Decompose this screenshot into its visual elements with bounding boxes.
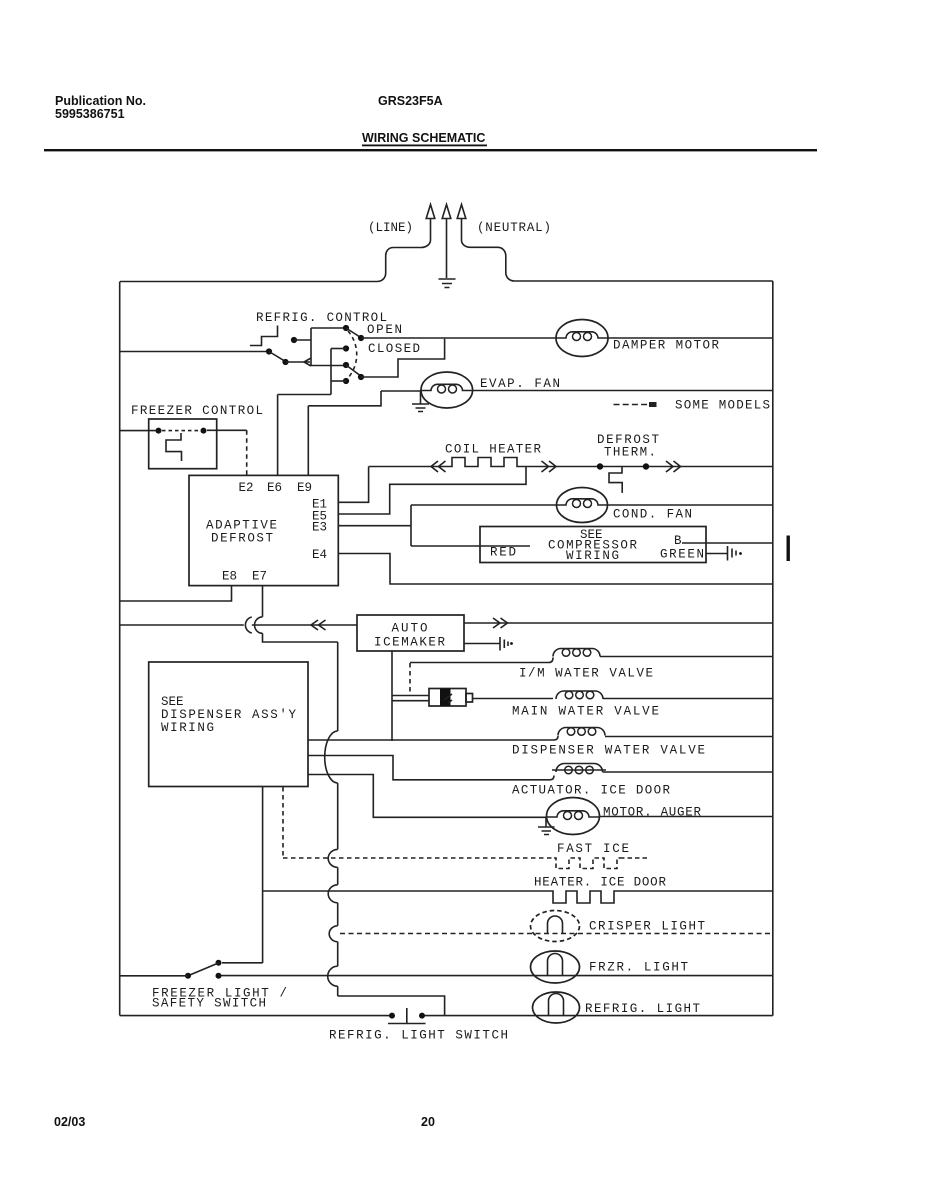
wire auger motor to right edge	[600, 816, 773, 818]
heater fast ice (dashed square wave)	[554, 858, 620, 869]
svg-text:AUTO: AUTO	[392, 622, 428, 636]
wire evap fan row	[381, 390, 773, 393]
svg-text:REFRIG. LIGHT SWITCH: REFRIG. LIGHT SWITCH	[329, 1029, 508, 1043]
svg-text:20: 20	[421, 1115, 435, 1129]
connector chevrons >> (heater row)	[542, 461, 557, 472]
wire actuator ice door feed	[308, 756, 554, 780]
wire icemaker output row	[464, 622, 773, 624]
auger motor M4	[547, 798, 600, 835]
node contact (feed)	[266, 348, 272, 354]
svg-text:5995386751: 5995386751	[55, 107, 125, 121]
wire safety switch / freezer light row	[219, 975, 773, 977]
svg-text:(NEUTRAL): (NEUTRAL)	[477, 221, 551, 235]
node contact mid-lower	[343, 362, 349, 368]
node contact (safety top)	[216, 960, 222, 966]
refrig light switch plunger	[388, 1008, 426, 1024]
svg-text:GRS23F5A: GRS23F5A	[378, 94, 443, 108]
compressor box	[480, 527, 706, 563]
svg-text:DISPENSER ASS'Y: DISPENSER ASS'Y	[161, 708, 296, 722]
wire wiper with connector arrow	[286, 361, 311, 363]
node junction dot	[643, 463, 649, 469]
wire riser x311	[310, 328, 312, 366]
solenoid coil main water valve	[556, 691, 603, 699]
ground symbol (top center)	[439, 279, 456, 288]
node contact (safety left)	[185, 973, 191, 979]
freezer control thermostat stair	[166, 433, 182, 461]
wire E3 to cond fan / compressor	[338, 505, 411, 546]
wire contact to riser	[294, 339, 311, 341]
svg-text:FREEZER CONTROL: FREEZER CONTROL	[131, 404, 263, 418]
svg-text:GREEN: GREEN	[660, 548, 704, 562]
node contact	[201, 428, 207, 434]
connector chevrons >> (icemaker out)	[493, 618, 508, 628]
freezer control dashed contact link	[162, 430, 200, 432]
node contact mid-upper	[343, 345, 349, 351]
switch blade 1	[269, 352, 286, 362]
main enclosure box: left edge	[119, 282, 121, 1016]
refrig control mechanical bracket	[250, 326, 278, 346]
defrost thermostat stair	[609, 467, 622, 493]
svg-text:FRZR. LIGHT: FRZR. LIGHT	[589, 961, 688, 975]
node contact OPEN left	[343, 325, 349, 331]
svg-text:E4: E4	[312, 548, 327, 562]
svg-text:CLOSED: CLOSED	[368, 342, 420, 356]
wire bottom contact to riser	[331, 380, 346, 382]
wire actuator to right edge	[603, 771, 773, 773]
chassis ground (icemaker)	[500, 637, 508, 651]
main enclosure box: top edge	[120, 280, 773, 283]
wire wall to safety switch	[120, 975, 188, 977]
wire I/M valve dashed riser (some models)	[409, 663, 411, 694]
auto icemaker box	[357, 615, 464, 651]
crisper light (dashed lamp)	[531, 911, 580, 942]
wire fast ice dashed row	[283, 857, 554, 859]
svg-text:REFRIG. LIGHT: REFRIG. LIGHT	[585, 1002, 700, 1016]
wire E5 bypass riser	[338, 467, 526, 515]
svg-text:DEFROST: DEFROST	[211, 532, 273, 546]
connector chevrons >> (after therm)	[666, 461, 681, 472]
svg-text:THERM.: THERM.	[604, 446, 656, 460]
wire crisper light dashed row	[340, 933, 773, 935]
node contact OPEN right	[358, 335, 364, 341]
wire dispenser water valve row	[308, 736, 558, 740]
wire CLOSED path jog	[361, 339, 445, 377]
svg-text:ACTUATOR. ICE DOOR: ACTUATOR. ICE DOOR	[512, 784, 670, 798]
wire LINE lead-in curve	[377, 219, 431, 282]
evap fan motor M2	[421, 372, 473, 408]
wire freezer control output	[207, 429, 247, 431]
svg-text:02/03: 02/03	[54, 1115, 85, 1129]
svg-text:MOTOR. AUGER: MOTOR. AUGER	[603, 806, 701, 820]
dispenser assembly box	[149, 662, 308, 787]
svg-text:E3: E3	[312, 521, 327, 535]
switch blade CLOSED	[346, 365, 362, 377]
ground symbol (evap fan)	[412, 391, 429, 412]
wire icemaker ground lead	[464, 643, 500, 645]
wire to OPEN contact	[311, 327, 346, 329]
svg-text:WIRING SCHEMATIC: WIRING SCHEMATIC	[362, 131, 485, 145]
svg-text:COND. FAN: COND. FAN	[613, 508, 692, 522]
svg-text:E2: E2	[239, 481, 254, 495]
wire icemaker feed row	[120, 624, 357, 626]
wire E7 riser with hop	[255, 586, 338, 642]
svg-text:COIL HEATER: COIL HEATER	[445, 443, 541, 457]
node earth-ground arrow (center)	[442, 205, 451, 219]
node contact (wiper)	[282, 359, 288, 365]
wire E8 to left wall	[120, 586, 232, 601]
adaptive defrost control board	[189, 475, 338, 585]
svg-text:B: B	[674, 534, 682, 548]
wire NEUTRAL lead-in curve	[462, 219, 515, 281]
wire mid-upper contact left	[331, 348, 346, 350]
wire RED lead into compressor box	[411, 545, 530, 547]
svg-text:E8: E8	[222, 570, 237, 584]
node contact (safety right)	[216, 973, 222, 979]
svg-text:E9: E9	[297, 481, 312, 495]
damper motor M1	[556, 320, 608, 357]
switch blade (freezer light / safety)	[188, 963, 219, 976]
wire E4 row	[338, 554, 773, 585]
svg-text:SEE: SEE	[161, 695, 184, 709]
node contact upper-left	[291, 337, 297, 343]
tick mark (right margin)	[787, 536, 790, 562]
svg-text:ICEMAKER: ICEMAKER	[374, 636, 445, 650]
solenoid coil I/M water valve	[553, 649, 600, 657]
svg-text:WIRING: WIRING	[161, 721, 214, 735]
legend dashed line = SOME MODELS	[614, 404, 649, 406]
wire defrost heater row	[369, 466, 773, 468]
node LINE arrow	[426, 205, 435, 219]
node contact CLOSED right	[358, 374, 364, 380]
resistor defrost heater (square wave)	[449, 458, 528, 467]
wire dispenser box drop to safety switch	[262, 787, 264, 963]
svg-text:WIRING: WIRING	[566, 549, 619, 563]
wire feed from wall into freezer control	[120, 430, 156, 432]
freezer control box	[149, 419, 217, 469]
switch gang dashed arc	[348, 331, 357, 378]
svg-text:(LINE): (LINE)	[368, 221, 413, 235]
node contact	[156, 428, 162, 434]
fuse / thermal cutoff F1	[429, 689, 466, 707]
wire GREEN lead	[706, 553, 727, 555]
wire I/M water valve feed	[410, 658, 553, 663]
wire damper motor row	[361, 337, 773, 339]
main enclosure box: bottom edge (gap at light switch)	[120, 1015, 773, 1017]
svg-text:E6: E6	[267, 481, 282, 495]
wire dispenser valve to right edge	[605, 736, 773, 738]
wire fuse output to main valve coil	[473, 698, 554, 700]
svg-text:SAFETY SWITCH: SAFETY SWITCH	[152, 997, 266, 1011]
condenser fan motor M3	[557, 488, 608, 523]
svg-text:HEATER. ICE DOOR: HEATER. ICE DOOR	[534, 876, 666, 890]
svg-text:OPEN: OPEN	[367, 323, 402, 337]
svg-text:I/M WATER VALVE: I/M WATER VALVE	[519, 667, 653, 681]
wire E2 riser (dashed)	[246, 430, 248, 475]
wire freezer-lights riser with hops	[325, 642, 445, 1016]
solenoid coil dispenser water valve	[558, 728, 605, 736]
svg-text:DAMPER MOTOR: DAMPER MOTOR	[613, 339, 719, 353]
wire safety switch top feed	[222, 962, 263, 964]
wire main valve to right edge	[603, 698, 773, 700]
svg-text:DISPENSER WATER VALVE: DISPENSER WATER VALVE	[512, 744, 705, 758]
wire feed from left wall to refrig control	[120, 351, 266, 353]
wire mid-lower contact left	[311, 365, 346, 367]
header rule	[44, 149, 817, 151]
wire fast ice dashed riser (some models)	[282, 787, 284, 858]
connector half-circle (icemaker row)	[245, 617, 251, 633]
svg-text:EVAP. FAN: EVAP. FAN	[480, 377, 560, 391]
node junction dot	[597, 463, 603, 469]
refrig light lamp	[533, 992, 580, 1023]
ground symbol (auger motor)	[538, 818, 555, 835]
wire I/M valve to right edge	[600, 656, 773, 658]
wire B lead to right edge	[682, 542, 773, 544]
wire auger motor feed	[308, 775, 547, 818]
refrig light switch contacts	[389, 1013, 395, 1019]
chassis ground (compressor green)	[728, 546, 737, 561]
wire riser x331	[330, 349, 332, 395]
connector chevrons << (heater row)	[431, 461, 446, 472]
wire E9 riser path	[308, 391, 381, 475]
wire cond fan row	[411, 504, 773, 506]
connector chevrons << (icemaker row)	[311, 620, 326, 630]
node NEUTRAL arrow	[457, 205, 466, 219]
svg-text:E7: E7	[252, 570, 267, 584]
wire heater ice door row	[263, 890, 773, 892]
svg-text:CRISPER LIGHT: CRISPER LIGHT	[589, 920, 705, 934]
svg-text:FAST ICE: FAST ICE	[557, 842, 629, 856]
svg-text:ADAPTIVE: ADAPTIVE	[206, 519, 277, 533]
wire center stem to ground	[446, 219, 448, 278]
heater ice door (square wave)	[551, 891, 633, 903]
freezer light lamp	[531, 951, 580, 983]
wire icemaker box drop riser	[391, 651, 393, 741]
svg-text:MAIN WATER VALVE: MAIN WATER VALVE	[512, 705, 659, 719]
wire fuse feed stubs	[392, 696, 429, 701]
wire E6 riser path	[278, 395, 331, 476]
wire E1 to coil heater	[338, 467, 368, 503]
node contact bottom	[343, 378, 349, 384]
solenoid coil actuator ice door	[556, 764, 603, 773]
switch blade OPEN	[346, 328, 362, 338]
svg-text:SOME MODELS: SOME MODELS	[675, 399, 770, 413]
main enclosure box: right edge	[772, 281, 774, 1016]
svg-text:Publication No.: Publication No.	[55, 94, 146, 108]
svg-text:RED: RED	[490, 546, 516, 560]
